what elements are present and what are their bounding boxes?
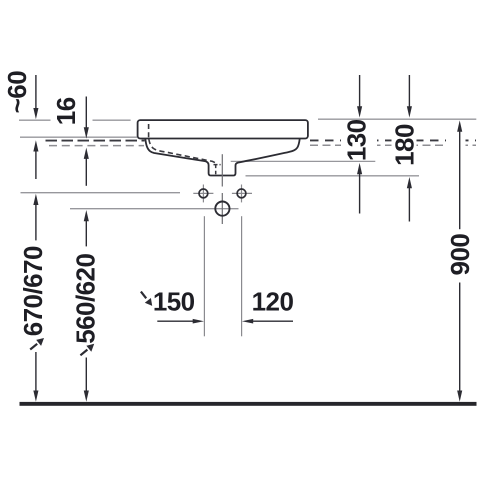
svg-text:150: 150 (153, 287, 195, 317)
reference line 670 level (21, 192, 181, 194)
tick line at rim top level for ~60 (19, 119, 51, 121)
hidden inner bowl dashed: vertical in rim (148, 124, 150, 138)
drain centerline (221, 154, 223, 186)
svg-text:900: 900 (445, 234, 475, 276)
right fixing hole circle (237, 189, 246, 198)
svg-text:560/620: 560/620 (71, 254, 101, 344)
countertop surface line left (20, 136, 137, 138)
svg-text:130: 130 (341, 119, 371, 161)
left fixing hole crosshair (193, 185, 213, 203)
drain hole circle (215, 202, 229, 216)
dimension 670/670 (18, 194, 48, 402)
hidden drain tick (214, 164, 221, 166)
dimension 130 (341, 75, 377, 214)
reference line 130 level (231, 160, 376, 162)
rim top reference line right (318, 118, 476, 120)
hidden inner bowl dashed: curve and slope (149, 139, 216, 163)
dimension 120 (242, 287, 294, 324)
counter hidden dashed line grey right (310, 144, 476, 146)
extension line below left hole (150) (203, 216, 205, 336)
dimension ~60 (2, 71, 38, 179)
svg-text:120: 120 (252, 287, 294, 317)
dimension 16 (51, 97, 89, 186)
right fixing hole crosshair (232, 185, 252, 203)
basin rim (138, 120, 308, 138)
svg-text:180: 180 (389, 124, 419, 166)
dimension 900 (445, 120, 475, 401)
dimension 560/620 (71, 210, 101, 402)
counter hidden dashed line grey left (49, 145, 144, 147)
counter hidden dashed line dark left (46, 140, 145, 142)
basin bowl outline (145, 139, 299, 176)
tick line at rim top level for 16 (93, 119, 131, 121)
svg-text:670/670: 670/670 (18, 246, 48, 336)
counter hidden dashed line dark right (310, 139, 476, 141)
svg-text:~60: ~60 (2, 71, 32, 114)
floor line (20, 402, 477, 406)
left fixing hole circle (199, 189, 208, 198)
reference line 560 level / drain circle horizontal (70, 208, 239, 210)
reference line 180 level (drain bottom) (246, 175, 420, 177)
extension line below right hole (120) (241, 216, 243, 336)
hidden drain vertical dashed (215, 165, 217, 176)
dimension 150 (141, 287, 204, 324)
svg-text:16: 16 (51, 97, 81, 125)
dimension 180 (389, 75, 419, 222)
